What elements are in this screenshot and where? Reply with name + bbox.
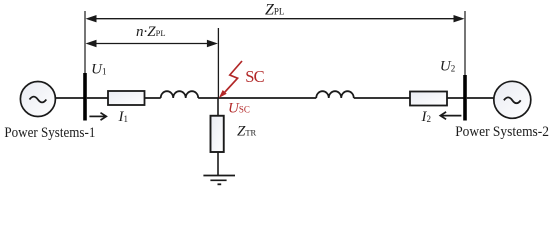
svg-text:I1: I1 <box>118 109 129 125</box>
impedance Z_TR (transition resistance) <box>211 116 224 152</box>
svg-text:U2: U2 <box>440 59 455 75</box>
node SC (fault point junction) <box>218 97 316 99</box>
dimension extension line left (bus-1) <box>84 11 86 73</box>
bus bar 1 <box>83 73 87 121</box>
svg-text:Power Systems-2: Power Systems-2 <box>455 124 549 140</box>
G2 sine symbol <box>504 97 521 103</box>
ground <box>203 176 235 185</box>
dimension extension line right (bus-2) <box>464 11 466 75</box>
svg-text:ZTR: ZTR <box>237 124 257 140</box>
current arrow I1 <box>89 113 106 120</box>
inductor (line reactance section 2) <box>316 91 354 98</box>
svg-text:n·ZPL: n·ZPL <box>136 24 166 40</box>
current arrow I2 <box>440 112 461 119</box>
svg-text:U1: U1 <box>91 62 106 78</box>
resistor (line impedance section 1) <box>108 91 145 105</box>
wire resistor 2 to bus-2 <box>447 97 464 99</box>
svg-text:I2: I2 <box>421 109 432 125</box>
short-circuit lightning arrow SC <box>219 61 242 98</box>
dimension line n·Z_PL <box>86 40 218 47</box>
generator G1 (Power Systems-1 source) <box>20 82 55 117</box>
generator G2 (Power Systems-2 source) <box>494 81 531 118</box>
svg-text:SC: SC <box>245 67 264 86</box>
resistor (line impedance section 2) <box>410 92 447 106</box>
wire Z_TR to ground <box>217 152 219 175</box>
wire inductor to resistor 2 <box>354 97 410 99</box>
G1 sine symbol <box>30 97 47 103</box>
svg-text:ZPL: ZPL <box>265 1 284 18</box>
svg-text:USC: USC <box>228 101 250 117</box>
inductor (line reactance section 1) <box>161 91 199 98</box>
svg-text:Power Systems-1: Power Systems-1 <box>4 125 95 141</box>
wire bus-1 to resistor <box>87 97 108 99</box>
dimension line Z_PL <box>86 15 465 22</box>
wire fault node down to Z_TR <box>217 98 219 116</box>
wire resistor to inductor <box>145 97 161 99</box>
wire bus-2 to G2 <box>467 97 494 99</box>
dimension extension line middle (fault point) <box>217 28 219 98</box>
wire inductor to fault node <box>198 97 218 99</box>
bus bar 2 <box>463 75 467 121</box>
wire G1 to bus-1 <box>55 97 83 99</box>
